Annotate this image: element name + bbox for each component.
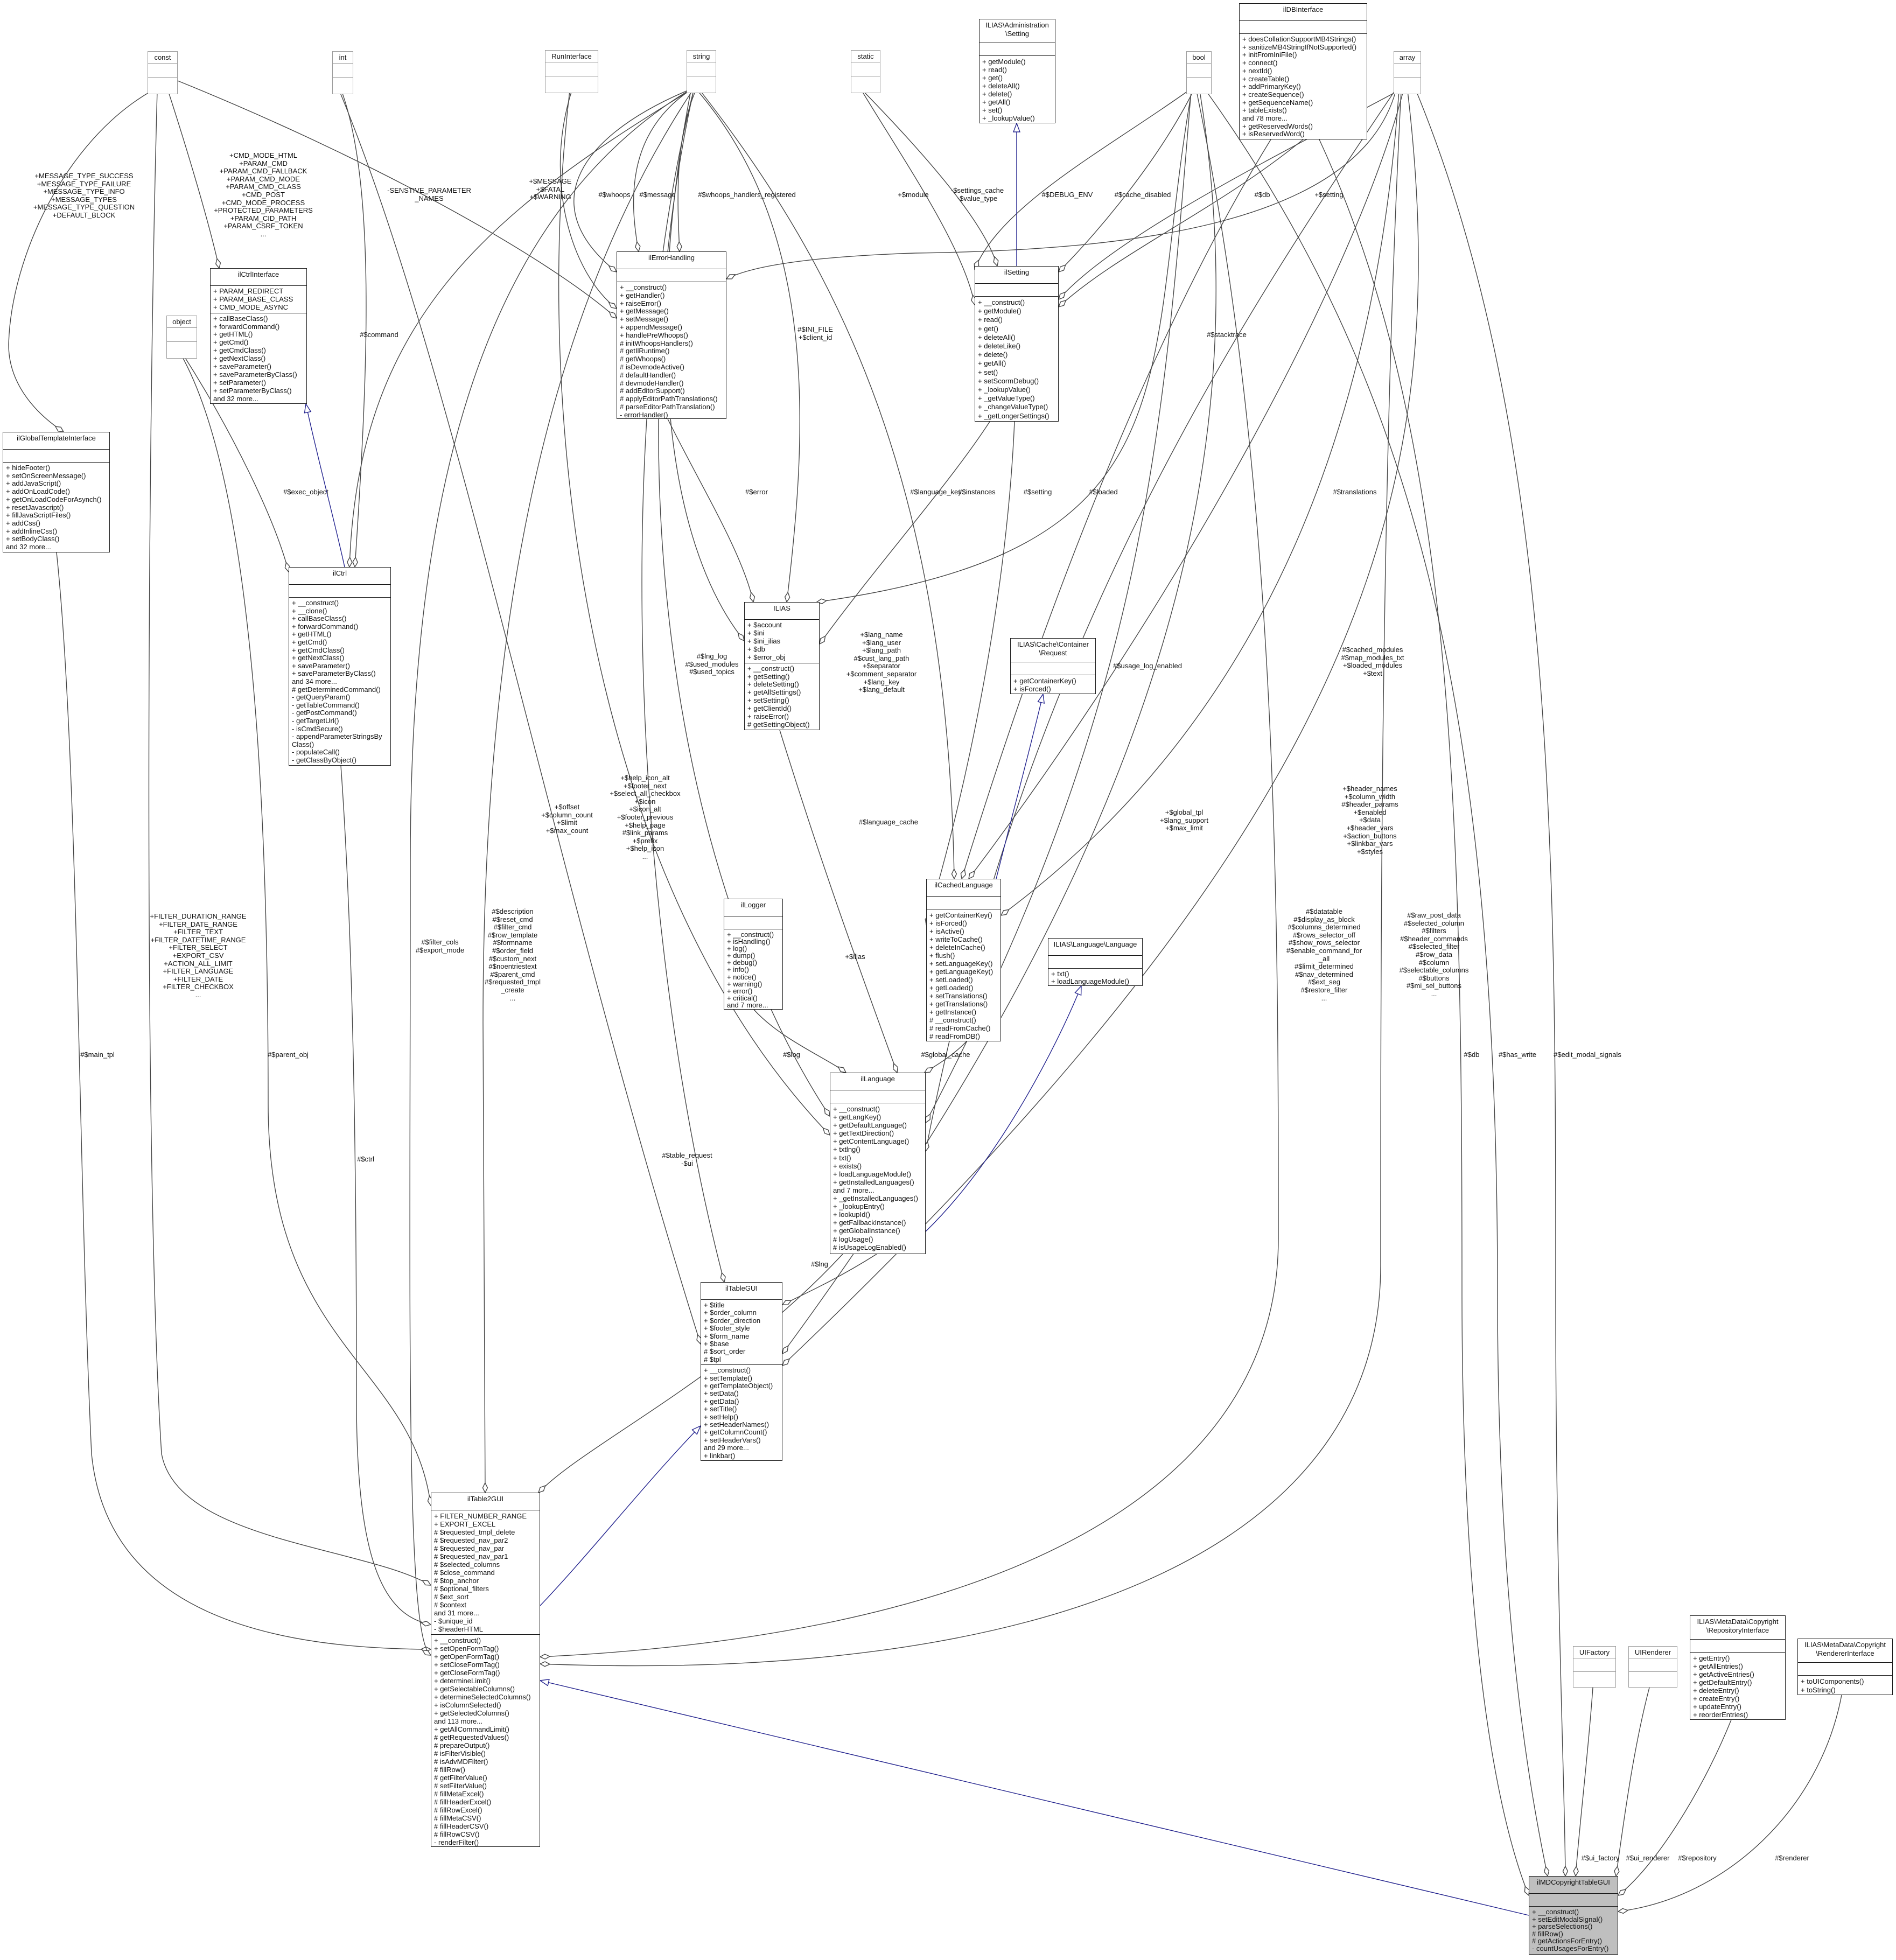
edge int->ilTableGUI L	[339, 90, 701, 1344]
class ilTable2GUI	[431, 1493, 540, 1847]
edge ilSetting->ILIAS R	[820, 422, 990, 644]
class ILIAS\Administration\Setting	[979, 19, 1055, 123]
class ilLanguage	[830, 1073, 926, 1254]
edge bool->ilSetting L1	[975, 91, 1188, 269]
edge string->EH T2	[678, 90, 696, 251]
class ilCtrlInterface	[210, 268, 307, 404]
inheritance MD->ilTable2GUI	[540, 1681, 1529, 1915]
label #$INI_FILE	[797, 326, 833, 341]
edge string->ilCtrl T2	[349, 93, 687, 567]
class ilLogger	[724, 899, 783, 1010]
edge const->EH L3	[178, 81, 617, 318]
edge array->ilSetting R2	[1059, 91, 1398, 299]
inheritance cached->Request	[996, 694, 1043, 879]
class ILIAS\MetaData\Copyright\RepositoryInterface	[1690, 1615, 1786, 1720]
label #$DEBUG_ENV	[1042, 191, 1093, 199]
label #$translations	[1333, 488, 1377, 496]
label #$instances	[958, 488, 995, 496]
class ilTableGUI	[701, 1282, 782, 1461]
label #$edit_modal_signals	[1554, 1051, 1621, 1059]
edge RunInterface->EH L2	[560, 90, 617, 309]
label #$setting	[1024, 488, 1052, 496]
label +$ilias	[845, 953, 865, 961]
label #$lng_log	[685, 653, 738, 676]
label #$description	[485, 908, 541, 1002]
label -SENSTIVE_PARAMETER	[387, 187, 471, 202]
edge ilLanguage->ilTableGUI R0	[782, 1254, 877, 1305]
class UIFactory	[1573, 1646, 1616, 1688]
label +$header_names	[1341, 785, 1398, 856]
edge array->cached T3	[969, 91, 1403, 879]
edge bool->T2 R1	[540, 91, 1278, 1657]
label +$offset	[541, 803, 593, 835]
edge string->EH L1	[574, 90, 688, 272]
label #$main_tpl	[80, 1051, 115, 1059]
label #$cache_disabled	[1115, 191, 1171, 199]
class static	[851, 50, 880, 93]
edge array->MD T2	[1416, 91, 1565, 1876]
label #$global_cache	[921, 1051, 970, 1059]
label +$lang_name	[846, 631, 916, 694]
edge bool->MD T1	[1206, 91, 1548, 1876]
inheritance ilLanguage->LangLanguage	[926, 986, 1081, 1231]
edge static->ilSetting T	[863, 90, 997, 266]
edge string->cached T1	[700, 90, 954, 879]
label #$whoops_handlers_registered	[698, 191, 795, 199]
edge array->cached R	[1001, 91, 1399, 915]
edge string->EH T1	[634, 90, 690, 251]
label #$raw_post_data	[1400, 912, 1469, 998]
class int	[332, 51, 353, 94]
edge string->T2 T1	[483, 90, 692, 1493]
edge string->ILIAS L	[667, 90, 744, 641]
edge ilLogger->ilLanguage T1	[754, 1010, 846, 1073]
edge string->ilTableGUI T	[642, 90, 724, 1282]
label #$stacktrace	[1207, 331, 1247, 339]
edge string->T2 L5	[410, 90, 689, 1655]
label +$global_tpl	[1160, 809, 1208, 832]
edge ilLanguage->T2 T2	[538, 1254, 843, 1493]
edge const->GTI T	[9, 90, 152, 432]
label #$renderer	[1775, 1854, 1809, 1863]
label -$settings_cache	[951, 187, 1004, 202]
class ILIAS\Language\Language	[1048, 938, 1143, 986]
label #$lng	[811, 1261, 828, 1269]
edge bool->ilSetting R1	[1059, 91, 1193, 272]
label #$usage_log_enabled	[1113, 662, 1182, 670]
label +$help_icon_alt	[610, 774, 680, 861]
label #$repository	[1678, 1854, 1717, 1863]
edge UIFactory->MD T3	[1576, 1688, 1593, 1876]
edge ilDB->cached T2	[962, 139, 1271, 879]
class object	[166, 316, 197, 359]
class ILIAS\MetaData\Copyright\RendererInterface	[1797, 1639, 1893, 1695]
edge ilDB->MD L	[1319, 139, 1529, 1895]
edge ilDB->ilSetting R3	[1059, 139, 1303, 307]
edge array->ilLanguage R2	[926, 91, 1395, 1151]
class string	[687, 50, 716, 93]
edge bool->ilLanguage R1	[926, 91, 1191, 1123]
class ilMDCopyrightTableGUI	[1529, 1876, 1618, 1955]
label #$table_request	[662, 1152, 712, 1167]
class ilErrorHandling	[617, 251, 726, 419]
edge object->ilCtrl L	[184, 355, 289, 572]
label +MESSAGE_TYPE_SUCCESS	[33, 172, 135, 220]
class ilGlobalTemplateInterface	[3, 432, 110, 552]
class RunInterface	[545, 50, 598, 93]
class array	[1394, 51, 1421, 94]
edge array->ilTableGUI R2	[782, 91, 1418, 1366]
class ILIAS\Cache\Container\Request	[1010, 638, 1096, 694]
label #$ui_factory	[1582, 1854, 1620, 1863]
edge string->ilLanguage L1	[659, 90, 830, 1116]
label #$command	[360, 331, 398, 339]
edge cached->ilLanguage T3	[925, 1041, 967, 1073]
edge Repo->MD R1	[1618, 1720, 1731, 1895]
inheritance ilCtrl->ilCtrlInterface	[306, 404, 345, 567]
class UIRenderer	[1628, 1646, 1677, 1688]
edge bool->ILIAS T3	[817, 91, 1192, 602]
label #$ctrl	[357, 1156, 374, 1164]
edge ilSetting->cached L	[926, 422, 1015, 925]
edge RunInterface->ilLanguage L2	[559, 90, 830, 1135]
class ilSetting	[975, 266, 1059, 422]
inheritance ilSetting->AdminSetting	[1016, 123, 1017, 266]
edge object->T2 L1	[181, 355, 431, 1506]
class ilCachedLanguage	[926, 879, 1001, 1041]
label #$whoops	[598, 191, 630, 199]
edge array->EH R2	[726, 91, 1396, 279]
label #$db	[1255, 191, 1270, 199]
label +$setting	[1314, 191, 1343, 199]
class const	[148, 51, 178, 94]
label #$loaded	[1089, 488, 1118, 496]
label #$message	[639, 191, 675, 199]
edge UIRenderer->MD T4	[1616, 1688, 1649, 1876]
inheritance T2->ilTableGUI	[540, 1426, 701, 1606]
label +CMD_MODE_HTML	[214, 152, 313, 239]
edge const->T2 L2	[149, 90, 431, 1585]
edge ilCtrl->T2 L3	[341, 766, 431, 1625]
class ilCtrl	[289, 567, 391, 766]
edge const->ilCtrlIface T	[168, 90, 219, 268]
label #$exec_object	[283, 488, 328, 496]
edge static->ilSetting L2	[862, 90, 975, 305]
edge string->ILIAS T2	[697, 90, 800, 602]
label #$db	[1464, 1051, 1480, 1059]
label #$filter_cols	[416, 939, 464, 954]
label +FILTER_DURATION_RANGE	[150, 913, 246, 999]
class bool	[1186, 51, 1212, 94]
class ILIAS	[744, 602, 820, 730]
label #$language_key	[910, 488, 961, 496]
label #$error	[745, 488, 768, 496]
label #$parent_obj	[268, 1051, 309, 1059]
label #$cached_modules	[1341, 646, 1404, 677]
edge Rend->MD R2	[1618, 1695, 1842, 1912]
label #$datatable	[1286, 908, 1362, 1002]
label #$ui_renderer	[1626, 1854, 1670, 1863]
label +$module	[898, 191, 928, 199]
edge GTI->T2 L4	[57, 552, 431, 1649]
label #$has_write	[1499, 1051, 1536, 1059]
class ilDBInterface	[1239, 3, 1367, 139]
edge array->T2 R2	[540, 91, 1401, 1666]
label +$MESSAGE	[529, 178, 571, 201]
edge int->ilCtrl T	[341, 90, 366, 567]
edge bool->ilTableGUI R1	[782, 91, 1216, 1354]
label #$log	[783, 1051, 800, 1059]
edge ILIAS->ilLanguage T2	[780, 730, 897, 1073]
label #$language_cache	[859, 818, 918, 827]
edge EH->ILIAS T1	[668, 419, 753, 602]
